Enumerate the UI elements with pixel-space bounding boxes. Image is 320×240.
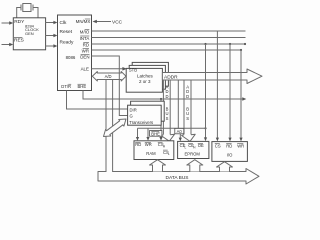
svg-text:BHE: BHE bbox=[78, 84, 87, 89]
node on RD line bbox=[204, 43, 206, 45]
svg-text:EPROM: EPROM bbox=[185, 152, 201, 157]
svg-text:GEN: GEN bbox=[25, 31, 34, 36]
transceivers stack bbox=[128, 101, 165, 125]
svg-text:RAM: RAM bbox=[146, 151, 156, 156]
svg-text:ADDR: ADDR bbox=[164, 74, 178, 80]
wire down to RAM RD bbox=[137, 128, 139, 138]
svg-text:DT/R: DT/R bbox=[61, 84, 71, 89]
svg-text:A/D: A/D bbox=[105, 74, 112, 79]
node on RD to I/O RD bbox=[229, 43, 231, 45]
node RD branch to RAM bbox=[204, 127, 206, 129]
svg-text:DIR: DIR bbox=[130, 107, 137, 112]
wire 8284 to 8086 Ready bbox=[46, 44, 58, 47]
svg-text:WR: WR bbox=[82, 49, 89, 54]
bus ADD BUS drop to RAM bbox=[161, 80, 175, 141]
wire down to RAM WR bbox=[147, 128, 149, 138]
bus A/D between 8086 and latches bbox=[92, 72, 126, 82]
svg-text:CS: CS bbox=[215, 144, 221, 149]
svg-text:2 or 3: 2 or 3 bbox=[139, 79, 151, 84]
WR control line bbox=[92, 49, 242, 51]
svg-text:D: D bbox=[165, 94, 168, 99]
label A0 boxed bbox=[175, 128, 184, 134]
wire ALE to STB bbox=[92, 68, 124, 70]
input RES bbox=[2, 43, 14, 46]
bus DATA BUS bbox=[98, 169, 259, 185]
CPU U2 8086 bbox=[58, 15, 92, 91]
svg-text:BHE: BHE bbox=[151, 131, 160, 136]
node BHE drop bbox=[160, 98, 162, 100]
bus vertical joins data bus (mask top line) bbox=[107, 171, 113, 172]
wire BHE from 8086 bbox=[83, 91, 244, 100]
svg-text:S: S bbox=[166, 116, 169, 121]
svg-text:G: G bbox=[130, 113, 133, 118]
svg-text:A0: A0 bbox=[177, 129, 183, 134]
INTA control line bbox=[92, 37, 246, 39]
svg-text:S: S bbox=[186, 116, 189, 121]
bus ADDR arrow bbox=[162, 69, 262, 84]
svg-text:M/IO: M/IO bbox=[80, 30, 90, 35]
bus branch data to I/O bbox=[217, 162, 233, 172]
M/IO control line bbox=[92, 30, 246, 32]
svg-text:L: L bbox=[185, 145, 187, 149]
latches stack 2 or 3 bbox=[126, 62, 168, 92]
wire RD down to I/O RD bbox=[229, 44, 231, 139]
wire RD down to EPROM OE bbox=[205, 44, 207, 139]
svg-text:WR: WR bbox=[237, 144, 244, 149]
wire DEN to G bbox=[92, 56, 128, 116]
bus ADD BUS drop to EPROM bbox=[182, 80, 196, 141]
svg-text:RES: RES bbox=[14, 37, 24, 43]
wire down to I/O CS bbox=[216, 31, 218, 139]
label BHE boxed bbox=[150, 131, 162, 137]
svg-text:RD: RD bbox=[83, 43, 89, 48]
svg-text:I/O: I/O bbox=[227, 153, 233, 158]
svg-text:Latches: Latches bbox=[137, 74, 154, 79]
svg-text:INTA: INTA bbox=[80, 36, 90, 41]
crystal X1 bbox=[21, 4, 33, 12]
svg-text:8086: 8086 bbox=[66, 55, 76, 60]
svg-text:Ready: Ready bbox=[60, 39, 74, 45]
svg-text:DEN: DEN bbox=[80, 55, 89, 60]
input RDY bbox=[2, 21, 14, 24]
wire crystal left to 8284 bbox=[17, 8, 21, 18]
svg-text:D: D bbox=[186, 94, 189, 99]
wire control feed to RAM RD/WR bbox=[138, 127, 206, 129]
svg-text:L: L bbox=[168, 152, 170, 156]
svg-text:Transceivers: Transceivers bbox=[129, 120, 153, 125]
svg-text:ALE: ALE bbox=[81, 66, 89, 71]
svg-text:Reset: Reset bbox=[60, 29, 73, 35]
bus diagonal to transceivers bbox=[104, 119, 127, 137]
svg-text:Clk: Clk bbox=[60, 20, 68, 26]
wire DT/R from 8086 to DIR bbox=[67, 91, 128, 110]
node RD line end bbox=[244, 43, 246, 45]
svg-text:MN/MX: MN/MX bbox=[76, 19, 91, 24]
svg-text:DATA BUS: DATA BUS bbox=[166, 175, 189, 181]
svg-text:RD: RD bbox=[226, 144, 232, 149]
VCC wire to MN/MX bbox=[93, 20, 123, 26]
bus branch data to EPROM bbox=[187, 160, 203, 172]
svg-text:STB: STB bbox=[129, 68, 137, 73]
wire 8284 to 8086 Clk bbox=[46, 21, 58, 24]
RD control line bbox=[92, 43, 247, 45]
wire BHE down to RAM CSH bbox=[160, 99, 162, 139]
memory EPROM bbox=[178, 141, 209, 158]
svg-text:WR: WR bbox=[145, 142, 152, 147]
node on WR to I/O WR bbox=[240, 49, 242, 51]
wire crystal right to 8284 bbox=[33, 8, 38, 18]
bus branch data to RAM bbox=[150, 160, 166, 172]
wire 8284 to 8086 Reset bbox=[46, 34, 58, 37]
bus A/D to data bus vertical bbox=[106, 78, 113, 172]
wire A0 drop from ADDR bus to EPROM CEL bbox=[177, 80, 179, 130]
svg-text:RDY: RDY bbox=[14, 19, 25, 25]
svg-text:VCC: VCC bbox=[112, 20, 123, 26]
clock generator U1 8284 bbox=[13, 18, 45, 50]
wire WR down to I/O WR bbox=[240, 50, 242, 139]
svg-text:OE: OE bbox=[198, 143, 204, 148]
peripheral I/O bbox=[212, 142, 248, 162]
svg-text:RD: RD bbox=[135, 142, 141, 147]
memory RAM bbox=[134, 141, 174, 160]
